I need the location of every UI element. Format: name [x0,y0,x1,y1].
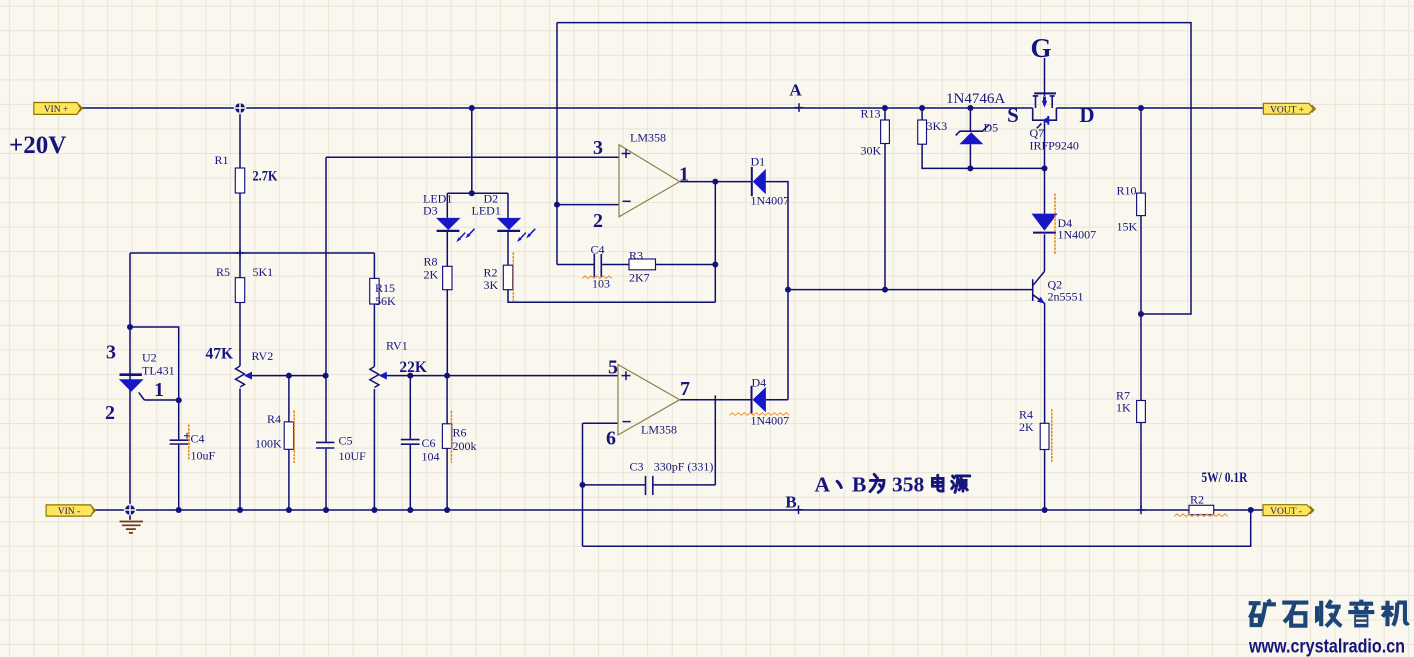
svg-text:D: D [1079,103,1094,127]
svg-text:358: 358 [892,473,925,497]
svg-text:3K3: 3K3 [927,119,948,133]
svg-text:VOUT +: VOUT + [1270,106,1304,116]
svg-text:10uF: 10uF [191,449,216,463]
svg-text:VIN +: VIN + [44,105,69,115]
svg-text:10UF: 10UF [339,449,367,463]
svg-text:TL431: TL431 [142,364,175,378]
svg-text:56K: 56K [375,294,396,308]
svg-text:U2: U2 [142,351,157,365]
svg-text:6: 6 [606,427,616,449]
svg-text:G: G [1030,33,1051,63]
svg-text:R2: R2 [1190,493,1204,507]
svg-text:R13: R13 [861,107,881,121]
svg-text:1N4007: 1N4007 [1058,228,1097,242]
svg-text:C3: C3 [630,460,644,474]
svg-text:2K: 2K [424,268,439,282]
svg-text:1N4746A: 1N4746A [946,91,1005,107]
svg-text:2.7K: 2.7K [253,168,278,184]
svg-text:1N4007: 1N4007 [751,414,790,428]
svg-text:C5: C5 [339,434,353,448]
svg-text:5W/ 0.1R: 5W/ 0.1R [1201,470,1247,486]
svg-text:LM358: LM358 [630,131,666,145]
svg-text:D4: D4 [752,376,767,390]
svg-text:D1: D1 [751,155,766,169]
svg-text:1N4007: 1N4007 [751,194,790,208]
svg-text:VOUT -: VOUT - [1270,507,1302,517]
svg-text:B: B [785,493,796,512]
svg-text:D3: D3 [423,204,438,218]
svg-text:30K: 30K [861,144,882,158]
svg-text:3: 3 [106,342,116,364]
svg-text:2: 2 [593,210,603,232]
svg-text:IRFP9240: IRFP9240 [1030,139,1079,153]
svg-text:5K1: 5K1 [253,265,274,279]
svg-text:R15: R15 [375,281,395,295]
svg-text:RV2: RV2 [252,349,274,363]
svg-text:103: 103 [592,277,610,291]
svg-text:R10: R10 [1117,184,1137,198]
svg-text:1: 1 [154,379,164,401]
svg-text:R5: R5 [216,265,230,279]
svg-text:LED1: LED1 [472,204,501,218]
svg-text:C4: C4 [191,432,205,446]
svg-text:VIN -: VIN - [58,507,80,517]
svg-text:330pF (331): 330pF (331) [654,460,714,474]
svg-text:+20V: +20V [9,132,66,159]
svg-text:A: A [815,473,831,497]
svg-text:1: 1 [679,163,689,185]
svg-text:104: 104 [422,450,440,464]
svg-text:C4: C4 [591,243,605,257]
svg-text:R8: R8 [424,255,438,269]
svg-text:3K: 3K [484,278,499,292]
svg-text:15K: 15K [1117,220,1138,234]
svg-text:2K: 2K [1019,420,1034,434]
svg-text:R4: R4 [267,412,281,426]
svg-text:200k: 200k [453,439,477,453]
svg-text:47K: 47K [206,345,234,362]
svg-text:2K7: 2K7 [629,271,650,285]
svg-text:R3: R3 [629,249,643,263]
svg-text:C6: C6 [422,436,436,450]
svg-text:www.crystalradio.cn: www.crystalradio.cn [1248,636,1405,657]
svg-text:S: S [1007,103,1019,127]
svg-text:5: 5 [608,356,618,378]
svg-text:3: 3 [593,137,603,159]
svg-text:A: A [789,81,802,100]
svg-text:R6: R6 [453,426,467,440]
svg-text:7: 7 [680,378,690,400]
svg-text:1K: 1K [1116,401,1131,415]
svg-text:R1: R1 [215,153,229,167]
svg-text:100K: 100K [255,437,282,451]
svg-text:RV1: RV1 [386,339,408,353]
svg-text:B: B [852,473,866,497]
svg-text:LM358: LM358 [641,423,677,437]
svg-text:D5: D5 [984,121,999,135]
svg-text:22K: 22K [399,359,427,376]
svg-text:2: 2 [105,402,115,424]
svg-text:2n5551: 2n5551 [1048,290,1084,304]
